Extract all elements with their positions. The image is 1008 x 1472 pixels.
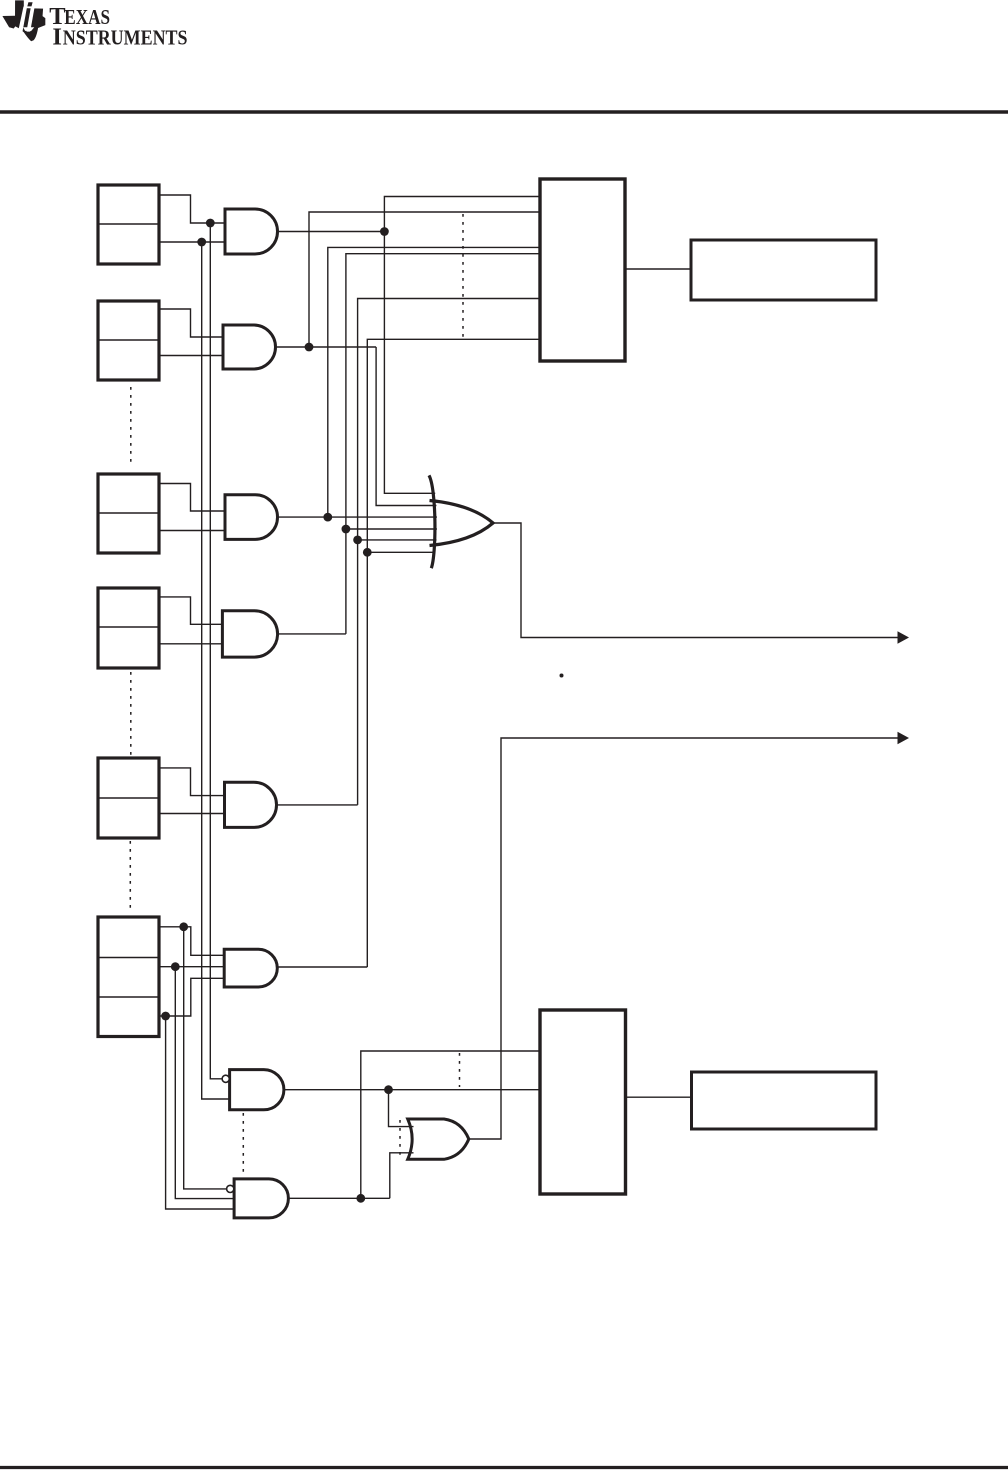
node J1 on G1 input A: [206, 219, 215, 228]
wire G8 output to corner: [288, 1197, 389, 1199]
wire OR G9 output to arrow: [493, 523, 899, 638]
bottom horizontal rule: [0, 1466, 1008, 1469]
node J11 on reg6 cell3 wire: [161, 1012, 170, 1021]
wire G6 output to riser: [277, 966, 367, 968]
node J7 on G5 riser: [353, 536, 362, 545]
AND gate G4: [222, 611, 277, 657]
AND gate G3: [225, 495, 278, 540]
wire G3 output to OR G9 input 3: [278, 516, 437, 518]
AND gate G7 (inverting input): [222, 1070, 284, 1110]
priority encoder block B1: [540, 179, 625, 361]
wire reg1 cell1 to G1 input A: [159, 195, 225, 223]
wire J9 down to G8 bubble: [184, 927, 227, 1189]
svg-text:EXAS: EXAS: [64, 7, 110, 29]
wire reg2 cell2 to G2 input B: [159, 355, 223, 357]
OR gate G10 (2-input): [408, 1119, 469, 1159]
wire G2 output down to OR G9 input 2: [376, 347, 436, 506]
wire J10 down to G8 input B: [175, 967, 234, 1199]
logo i-dot: [27, 2, 32, 6]
wire J11 down to G8 input C: [166, 1016, 235, 1209]
AND gate G2: [223, 325, 276, 369]
wire J3 down to OR G9 input 1: [384, 232, 435, 494]
wire J4 up to block B1 input 2: [309, 212, 540, 347]
ellipsis dashes between reg5 and reg6: [129, 841, 131, 913]
priority encoder block B2: [540, 1010, 626, 1194]
ellipsis dashes between reg4 and reg5: [130, 672, 132, 755]
wire bus line from J2 down to G7 input B: [202, 242, 230, 1099]
node J12 on G7 output: [384, 1085, 393, 1094]
wire reg5 cell1 to G5 input A: [159, 768, 225, 796]
ellipsis dashes between G10 inputs: [399, 1120, 401, 1159]
node J6 on G4 riser: [342, 525, 351, 534]
wire reg4 cell1 to G4 input A: [159, 597, 222, 624]
wire reg1 cell2 to G1 input B: [159, 241, 225, 243]
register block 6 (3-cell): [98, 917, 159, 1037]
ellipsis dashes in B2 input bundle: [459, 1053, 461, 1087]
wire J12 down to OR G10 input 1: [389, 1090, 414, 1127]
wire G7 output to block B2 input 2: [284, 1089, 540, 1091]
AND gate G5: [225, 782, 277, 827]
wire G5 output to riser: [277, 804, 358, 806]
node J13 on G8 output: [356, 1194, 365, 1203]
register block 5 (2-cell): [98, 758, 159, 838]
stray period mark: [560, 674, 564, 678]
wire bus line from J1 down to G7 bubble: [210, 223, 222, 1079]
ellipsis dashes between G7 and G8: [242, 1113, 244, 1172]
wire J5 up to block B1 input 3: [328, 247, 540, 517]
wire reg6 cell3 to G6 input C: [159, 978, 224, 1016]
wire J7 to OR G9 input 5: [358, 539, 437, 541]
wire reg2 cell1 to G2 input A: [159, 309, 223, 337]
register block 2 (2-cell): [98, 301, 159, 380]
register block 3 (2-cell): [98, 474, 159, 553]
Texas Instruments logo glyph: [2, 0, 45, 41]
wire G6 riser up to block B1 input 6: [367, 339, 540, 967]
wire G2 output to corner: [276, 346, 377, 348]
node J5 on G3 output: [323, 513, 332, 522]
wire reg4 cell2 to G4 input B: [159, 643, 222, 645]
wire block B1 output to label L1: [625, 268, 691, 270]
register block 4 (2-cell): [98, 588, 159, 668]
wire G1 output to node J3: [278, 231, 385, 233]
arrowhead output 1: [898, 631, 910, 644]
wire reg3 cell2 to G3 input B: [159, 530, 225, 532]
top horizontal rule: [0, 110, 1008, 113]
arrowhead output 2: [898, 732, 910, 745]
ellipsis dashes between reg2 and reg3: [130, 387, 132, 464]
logo wordmark INSTRUMENTS: [52, 24, 187, 51]
AND gate G1: [225, 209, 278, 254]
wire reg5 cell2 to G5 input B: [159, 813, 225, 815]
wire reg6 cell2 to G6 input B: [159, 966, 224, 968]
wire J3 up to block B1 input 1: [384, 197, 540, 232]
wire reg6 cell1 to G6 input A: [159, 927, 224, 956]
node J10 on reg6 cell2 wire: [171, 962, 180, 971]
wire J13 up to block B2 input 1: [361, 1051, 540, 1198]
label box L1: [691, 240, 876, 300]
node J2 on G1 input B: [197, 238, 206, 247]
wire J8 to OR G9 input 6: [367, 551, 435, 553]
wire reg3 cell1 to G3 input A: [159, 484, 225, 512]
wire block B2 output to label L2: [626, 1096, 692, 1098]
label box L2: [692, 1072, 877, 1129]
svg-text:NSTRUMENTS: NSTRUMENTS: [63, 28, 188, 50]
AND gate G6 (3-input): [224, 949, 277, 987]
wire J6 to OR G9 input 4: [346, 528, 437, 530]
ellipsis dashes in B1 input bundle: [462, 214, 464, 338]
OR gate G9 (6-input): [429, 475, 493, 568]
node J4 on G2 output: [305, 343, 314, 352]
node J8 on G6 riser: [363, 548, 372, 557]
wire OR G10 output riser to arrow: [469, 738, 899, 1139]
wire G5 riser up to block B1 input 5: [358, 299, 540, 805]
register block 1 (2-cell): [98, 185, 159, 264]
logo wordmark TEXAS: [49, 3, 110, 30]
svg-text:I: I: [52, 24, 62, 51]
wire G8 output up to OR G10 input 2: [390, 1153, 414, 1199]
wire G4 output to riser: [278, 633, 346, 635]
AND gate G8 (inverting input, 3-input): [227, 1179, 289, 1218]
node J3 on G1 output: [380, 227, 389, 236]
node J9 on reg6 cell1 wire: [179, 922, 188, 931]
wire G4 riser up to block B1 input 4: [346, 254, 540, 634]
